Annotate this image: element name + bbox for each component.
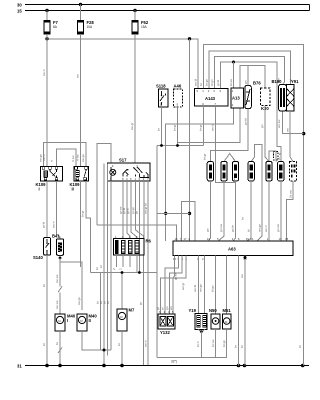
svg-text:gn ws: gn ws <box>276 223 280 232</box>
svg-text:·: · <box>126 269 130 270</box>
wire relay K109I pin down to B41 jog <box>57 181 61 239</box>
svg-text:K109: K109 <box>36 182 47 187</box>
wire bridge A63 pin7 to pin12 <box>182 202 196 241</box>
svg-text:B41: B41 <box>52 234 60 239</box>
wire S17 pin8 down to R6 <box>122 181 124 239</box>
svg-text:M7: M7 <box>129 308 135 313</box>
valve block Y132 <box>158 310 175 335</box>
wire h224.8 to A63 pin16 <box>97 225 177 241</box>
wire M51 down <box>226 329 228 358</box>
node junction merge <box>103 349 106 352</box>
wire loop2 A143 pin2 to Y91 <box>209 51 290 89</box>
wire A13 pin feed <box>233 62 235 88</box>
node junction M7 feed <box>121 271 124 274</box>
svg-text:A46: A46 <box>174 84 182 89</box>
wire s3 down to A63 <box>233 181 235 241</box>
wire S17 pin2 down <box>143 181 145 239</box>
svg-text:B160: B160 <box>272 79 283 84</box>
svg-text:gn br: gn br <box>231 225 235 232</box>
svg-text:13: 13 <box>279 237 283 241</box>
svg-text:rt: rt <box>50 160 54 162</box>
wire B160 bottom to ground net <box>283 111 304 134</box>
node junction S118 h145 <box>160 144 163 147</box>
svg-text:ws sw: ws sw <box>277 119 281 128</box>
svg-text:2: 2 <box>112 268 116 270</box>
wire A63 pin6 to Y132 p1 <box>161 255 187 313</box>
wire bundle verticals to merge <box>101 273 112 366</box>
wire S17 pin5 jog to merge <box>110 343 112 350</box>
svg-text:32*): 32*) <box>171 360 177 364</box>
actuator A13 <box>231 88 244 108</box>
switch S17 heater blower switch <box>107 158 150 181</box>
wire ground run x157 <box>156 146 158 358</box>
svg-text:sw bl: sw bl <box>193 79 197 86</box>
wire S17 pin1 down jog to R6 pin <box>136 181 144 239</box>
svg-text:sw gr: sw gr <box>130 123 134 130</box>
svg-text:ws rt: ws rt <box>264 225 268 232</box>
valve Y91 <box>287 79 300 111</box>
fuse F7 <box>44 20 59 34</box>
svg-text:2x sw: 2x sw <box>289 189 293 198</box>
svg-text:gn sw: gn sw <box>219 223 223 232</box>
common bar in S17 <box>140 177 149 178</box>
pump N50 <box>209 308 220 329</box>
svg-text:gn: gn <box>244 80 248 84</box>
svg-text:gr rt: gr rt <box>126 208 130 214</box>
svg-text:2: 2 <box>119 268 123 270</box>
svg-text:br gn: br gn <box>222 340 226 347</box>
motor M40 I <box>55 314 76 331</box>
wire loop1 A143 pin1 to ground right <box>203 45 303 366</box>
wire s2 down to A63 <box>218 181 224 241</box>
svg-text:II: II <box>72 186 74 191</box>
svg-text:br gr: br gr <box>173 125 177 131</box>
node ground x244.5 <box>243 364 247 368</box>
node junction F7 on bus15 <box>45 9 48 12</box>
wire A63 pin20 to ground <box>244 255 246 365</box>
wire ground merge h145.5 <box>157 145 203 147</box>
wire S17 pin5 down <box>110 181 112 343</box>
wire bus end join <box>309 5 311 11</box>
wire B41 to M40I with switch <box>58 258 62 314</box>
wire F7 down to relay K109 I <box>46 34 48 166</box>
svg-text:gr sw: gr sw <box>174 272 178 280</box>
svg-text:sw ws: sw ws <box>55 300 59 309</box>
svg-text:gn: gn <box>206 228 210 232</box>
svg-text:17: 17 <box>184 237 188 241</box>
relay K109 I <box>36 166 63 191</box>
switch S140 <box>33 238 51 260</box>
sensor B63 <box>278 162 284 182</box>
wire Y19 down <box>200 332 202 358</box>
svg-text:br rt: br rt <box>196 341 200 347</box>
wire F52 down to S17 <box>134 34 136 163</box>
svg-text:br: br <box>106 301 110 304</box>
wire feed bus y38.8 <box>47 39 198 89</box>
wire A63 pin9 to Y132 p2 <box>165 255 178 313</box>
svg-text:gr: gr <box>139 302 143 305</box>
wire A143 pin6 ground branch <box>202 106 204 146</box>
fuse F28 <box>77 20 94 34</box>
svg-text:sw gn: sw gn <box>77 297 81 305</box>
wire relay K109II pin2 jog right down <box>86 181 91 273</box>
svg-text:S118: S118 <box>156 84 166 89</box>
svg-text:sw rt: sw rt <box>42 154 46 161</box>
svg-text:br: br <box>199 83 203 86</box>
svg-text:I: I <box>67 318 68 323</box>
node junction S17 pin3 drop <box>138 271 141 274</box>
svg-text:br: br <box>298 345 302 348</box>
node ground x238.5 <box>237 364 241 368</box>
wire s1 down to A63 <box>209 181 211 241</box>
wire h272 collector <box>91 272 158 274</box>
svg-text:15: 15 <box>17 9 22 14</box>
svg-text:15A: 15A <box>141 25 148 29</box>
wire S17 pin3 down to h272 <box>138 181 140 273</box>
wire s5 loop connector <box>269 151 276 162</box>
wire run x104 <box>103 164 105 356</box>
svg-text:rt sw: rt sw <box>71 155 75 162</box>
svg-text:A63: A63 <box>228 247 236 252</box>
svg-text:gr: gr <box>135 211 139 214</box>
wire loop4 A143 pin3 to sensor B63 <box>221 62 281 162</box>
wire B76 bottom to sensor1 <box>210 109 248 162</box>
svg-text:I: I <box>39 186 40 191</box>
wire A63 pin3 to Y19a <box>197 255 199 313</box>
wire relay K109II pin down br gr <box>80 181 82 267</box>
node ground S140 <box>45 364 49 368</box>
wire M7 down to ground <box>121 331 123 366</box>
svg-text:sw gn: sw gn <box>81 154 85 162</box>
svg-text:br: br <box>55 342 59 345</box>
wire A63 pin1 to N50 <box>215 255 217 313</box>
wire R6 bottom pins down <box>117 255 137 273</box>
svg-text:bl gn: bl gn <box>210 79 214 86</box>
wire s5 down to A63 <box>267 181 270 241</box>
wire bundle merge h350 left <box>101 349 112 351</box>
sensor B124 <box>232 162 238 182</box>
wire relay K109I pin down to S140 <box>46 181 48 238</box>
wire bus 15 <box>25 10 310 12</box>
svg-text:12: 12 <box>207 237 211 241</box>
svg-text:gr bl: gr bl <box>42 222 46 228</box>
node junction F28 on bus30 <box>79 3 82 6</box>
node ground M40I <box>58 364 62 368</box>
svg-text:Y91: Y91 <box>291 79 299 84</box>
wire S17 pin6 down to R6 <box>131 181 137 239</box>
svg-text:br: br <box>157 128 161 131</box>
sensor B94 <box>207 162 213 182</box>
node junction F52 on bus15 <box>133 9 136 12</box>
svg-text:br: br <box>241 217 245 220</box>
wire S17 pin4 down to R6 jog <box>127 181 130 239</box>
wire A13 bottom to x165.7 down to A63 <box>166 108 234 241</box>
connector X13 <box>274 152 281 161</box>
component R2 dashed <box>290 162 297 182</box>
wire N50 down <box>215 329 217 358</box>
wire M40I down to ground <box>58 331 62 366</box>
svg-text:bl: bl <box>246 229 250 232</box>
switch S118 <box>156 84 168 108</box>
svg-text:R6: R6 <box>146 239 152 244</box>
svg-text:br: br <box>240 345 244 348</box>
sensor B61 <box>248 162 254 182</box>
svg-text:S140: S140 <box>33 255 43 260</box>
relay K30 dashed <box>261 88 271 111</box>
node junction B160 net <box>302 132 305 135</box>
svg-text:Y132: Y132 <box>160 330 170 335</box>
svg-text:sw rt: sw rt <box>143 340 147 347</box>
lamp E in S17 <box>110 169 116 175</box>
svg-text:15: 15 <box>246 237 250 241</box>
wire long drop x189.5 to A63 <box>189 39 191 241</box>
wire A63 pin2 to Y19b <box>204 255 206 313</box>
wire A143 pin7 to h182.5 to s3 net <box>216 106 236 183</box>
contact 1 in S17 <box>123 169 128 176</box>
node ground right <box>301 364 305 368</box>
wire Y91 bottom to dashed sensor7 <box>290 111 293 162</box>
wire A46 down <box>177 107 179 146</box>
sensor B160 <box>272 79 287 111</box>
svg-text:ws gn: ws gn <box>199 284 203 292</box>
wire h142.4 A13 branch <box>178 108 241 142</box>
node junction A63 pin20 <box>244 256 247 259</box>
svg-text:ws gn: ws gn <box>257 224 261 232</box>
svg-text:br gr: br gr <box>81 211 85 217</box>
motor M40 II <box>77 314 97 331</box>
svg-text:sw gn: sw gn <box>39 154 43 162</box>
wire A63 pin10 to Y132 p4 <box>173 255 174 313</box>
svg-text:B76: B76 <box>253 81 261 86</box>
wire s7 down to A63 <box>287 181 294 241</box>
node junction x165.7 y213.4 <box>164 212 167 215</box>
wire relay loop K109I pin3 to K109II pin1 <box>57 149 77 167</box>
svg-text:gn bl: gn bl <box>243 118 247 125</box>
sensor B76 <box>245 81 262 109</box>
node junction bus38 to A63 drop <box>188 37 191 40</box>
wire run x107.5 <box>107 164 109 356</box>
node junction fuse F7 out <box>45 37 48 40</box>
svg-text:br gr: br gr <box>203 154 207 160</box>
svg-text:br gn: br gn <box>205 79 209 86</box>
wire K30 bottom to sensor5 <box>265 106 269 162</box>
wire relay loop K109I pin1 to K109II <box>44 142 87 166</box>
wire s4 down to A63 <box>247 181 251 241</box>
wire loop5 A13 pin2 to K30 <box>240 66 265 88</box>
contact 2 in S17 <box>134 167 143 177</box>
wire h357 collector <box>157 356 227 358</box>
control unit A63 <box>173 237 293 261</box>
svg-text:br: br <box>99 265 103 268</box>
node ground bundle <box>102 364 106 368</box>
svg-text:M51: M51 <box>223 308 232 313</box>
relay K109 II <box>70 166 89 191</box>
wire S17 feed loop from A63 net <box>97 144 111 225</box>
svg-text:ws bl: ws bl <box>193 285 197 292</box>
svg-text:II: II <box>89 318 91 323</box>
wire bus 30 <box>25 4 310 6</box>
wire M7 feed <box>121 273 123 310</box>
wire R6 right down run <box>143 255 145 365</box>
component A46 dashed <box>174 84 183 108</box>
svg-text:31: 31 <box>17 364 22 369</box>
svg-text:gr bl: gr bl <box>216 80 220 86</box>
svg-text:ws gr: ws gr <box>181 283 185 290</box>
svg-text:sw rt: sw rt <box>42 69 46 76</box>
sensor B41 <box>52 234 64 256</box>
wire F28 top <box>80 5 82 21</box>
svg-text:bl gn: bl gn <box>211 285 215 292</box>
svg-text:sw rt: sw rt <box>51 221 55 228</box>
svg-text:A143: A143 <box>205 96 216 101</box>
svg-text:18: 18 <box>285 237 289 241</box>
motor M7 <box>117 308 135 332</box>
wire h213.4 between drops <box>157 212 190 214</box>
motor M51 <box>222 308 231 329</box>
svg-text:gn: gn <box>260 124 264 128</box>
svg-text:br: br <box>234 345 238 348</box>
wire A63 to M51 <box>226 255 228 313</box>
node junction x189.5 y213.4 <box>188 212 191 215</box>
wire loop3 A143 pin4 to B160 <box>214 57 284 89</box>
svg-text:sw gr bl: sw gr bl <box>143 203 147 214</box>
wire S17 pin7 down long <box>147 181 149 366</box>
node junction B41 bottom <box>59 257 62 260</box>
resistor pack R6 <box>114 235 152 255</box>
svg-text:br gr: br gr <box>199 125 203 131</box>
node junction A46 h145 <box>176 144 179 147</box>
svg-text:16: 16 <box>175 237 179 241</box>
svg-text:A13: A13 <box>232 96 240 101</box>
svg-text:S17: S17 <box>119 158 127 163</box>
wire jog s2 s3 peak <box>224 154 236 162</box>
fuse F52 <box>132 20 149 34</box>
wire B41 bottom split <box>60 255 82 310</box>
svg-text:br: br <box>42 343 46 346</box>
wire F28 down to relay K109 II <box>80 34 82 166</box>
sensor B110 <box>221 162 227 182</box>
control unit A143 <box>195 88 228 106</box>
svg-text:sw ws: sw ws <box>55 274 59 283</box>
svg-text:30: 30 <box>17 2 22 7</box>
svg-text:br: br <box>42 284 46 287</box>
wire s4 loop to A63 drop <box>251 144 262 241</box>
node ground M7 <box>120 364 124 368</box>
wire s6 down to A63 <box>279 181 282 241</box>
svg-text:10A: 10A <box>87 25 94 29</box>
svg-text:br: br <box>117 343 121 346</box>
svg-text:ws bl: ws bl <box>211 124 215 131</box>
svg-text:M40: M40 <box>67 314 76 319</box>
svg-text:br ws: br ws <box>211 339 215 347</box>
svg-text:N50: N50 <box>209 308 217 313</box>
wire ground pass x239.3 lower <box>238 255 240 365</box>
svg-text:21: 21 <box>250 237 254 241</box>
svg-text:bl ws: bl ws <box>229 78 233 86</box>
sensor B107 <box>266 162 272 182</box>
node junction loop4 to A13 <box>232 61 235 64</box>
svg-text:br: br <box>95 267 99 270</box>
valve Y19 <box>189 308 208 333</box>
wire S118 down <box>161 107 163 146</box>
wire A63 pin8 to Y132 p3 <box>170 255 183 313</box>
wire B76 top jog <box>247 66 249 86</box>
wire F7 top <box>46 11 48 21</box>
wire S140 down to ground <box>46 255 48 365</box>
wire M40II down to merge <box>82 331 104 350</box>
svg-text:Y19: Y19 <box>189 308 197 313</box>
wire F52 top <box>134 11 136 21</box>
